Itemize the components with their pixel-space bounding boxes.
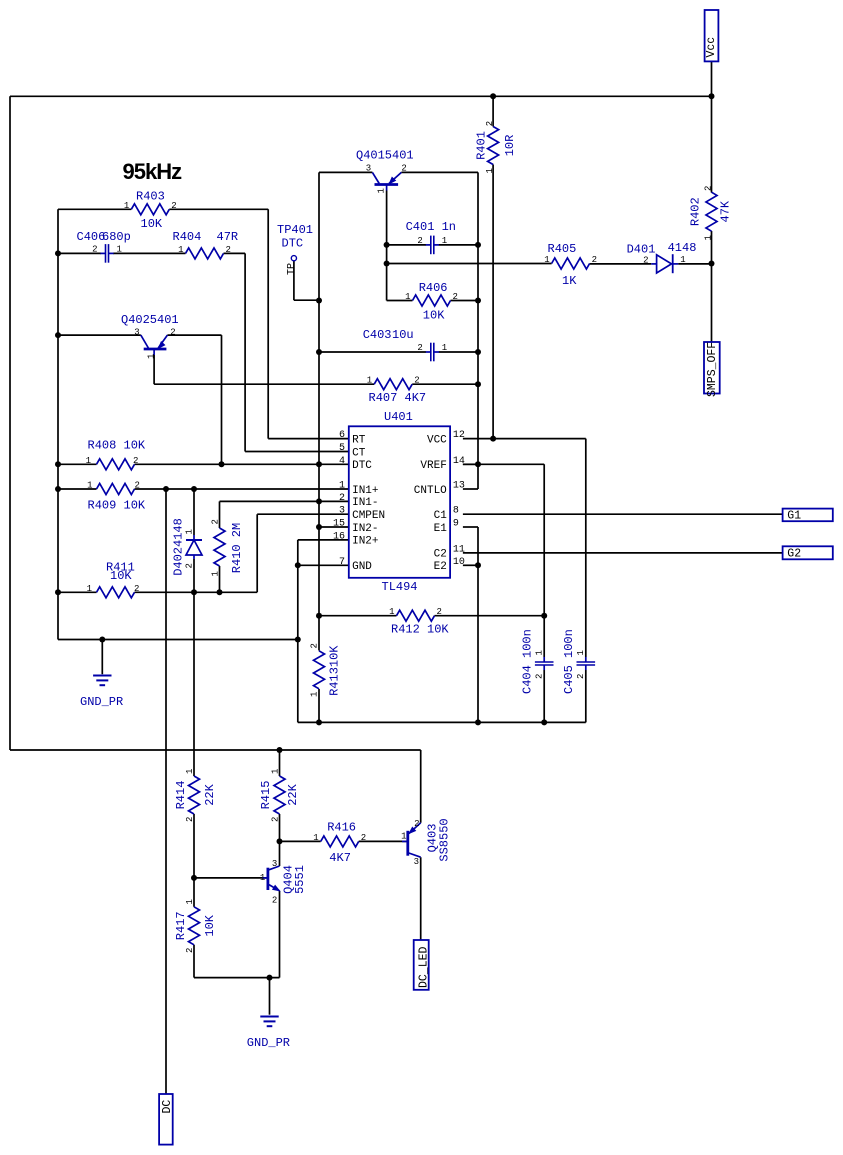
svg-text:1: 1 (86, 456, 91, 466)
svg-text:2: 2 (361, 833, 366, 843)
svg-text:C405 100n: C405 100n (562, 629, 576, 694)
svg-text:1: 1 (339, 481, 345, 492)
svg-text:2: 2 (185, 563, 195, 568)
svg-text:1: 1 (367, 376, 372, 386)
svg-text:2: 2 (170, 328, 175, 338)
svg-text:Vcc: Vcc (705, 37, 718, 58)
svg-text:1: 1 (310, 692, 320, 697)
svg-text:G2: G2 (787, 548, 801, 561)
svg-text:2: 2 (310, 643, 320, 648)
svg-text:TL494: TL494 (382, 580, 418, 594)
svg-text:2: 2 (271, 817, 281, 822)
svg-text:DC: DC (161, 1100, 174, 1114)
svg-text:DC_LED: DC_LED (418, 946, 431, 988)
svg-text:1: 1 (117, 244, 122, 254)
svg-text:1K: 1K (562, 274, 577, 288)
svg-text:10R: 10R (503, 135, 517, 157)
svg-text:1: 1 (211, 571, 221, 576)
svg-text:GND: GND (352, 561, 372, 573)
svg-text:1: 1 (185, 899, 195, 904)
svg-text:1: 1 (576, 650, 586, 655)
svg-text:2: 2 (592, 255, 597, 265)
svg-text:10K: 10K (203, 914, 217, 936)
svg-text:95kHz: 95kHz (123, 159, 183, 184)
svg-text:Q4025401: Q4025401 (121, 313, 179, 327)
svg-text:R404: R404 (173, 230, 202, 244)
svg-text:12: 12 (453, 430, 465, 441)
svg-text:C404 100n: C404 100n (521, 629, 535, 694)
svg-text:3: 3 (366, 164, 371, 174)
svg-text:5551: 5551 (293, 865, 307, 894)
svg-text:U401: U401 (384, 410, 413, 424)
svg-text:R408 10K: R408 10K (88, 438, 146, 452)
svg-text:1: 1 (313, 833, 318, 843)
svg-text:5: 5 (339, 443, 345, 454)
svg-text:3: 3 (339, 506, 345, 517)
svg-text:1: 1 (87, 584, 92, 594)
svg-text:DTC: DTC (352, 460, 372, 472)
svg-text:16: 16 (333, 531, 345, 542)
svg-text:2: 2 (414, 376, 419, 386)
svg-text:C406: C406 (77, 230, 106, 244)
svg-text:D4024148: D4024148 (172, 518, 186, 576)
svg-text:TP401: TP401 (277, 223, 313, 237)
svg-text:10: 10 (453, 557, 465, 568)
svg-text:1: 1 (178, 245, 183, 255)
svg-text:G1: G1 (787, 510, 801, 523)
svg-text:2: 2 (135, 481, 140, 491)
svg-text:1: 1 (271, 769, 281, 774)
svg-text:1: 1 (401, 832, 406, 842)
svg-text:15: 15 (333, 519, 345, 530)
svg-text:2: 2 (133, 456, 138, 466)
svg-text:7: 7 (339, 557, 345, 568)
svg-text:GND_PR: GND_PR (80, 695, 123, 709)
svg-text:4148: 4148 (668, 241, 697, 255)
svg-text:1: 1 (485, 168, 495, 173)
svg-text:680p: 680p (102, 230, 131, 244)
svg-text:14: 14 (453, 456, 465, 467)
svg-text:10K: 10K (141, 217, 163, 231)
svg-text:R401: R401 (475, 131, 489, 160)
svg-text:2: 2 (92, 244, 97, 254)
svg-text:C1: C1 (434, 510, 448, 522)
svg-text:SMPS_OFF: SMPS_OFF (706, 342, 719, 397)
svg-text:R417: R417 (174, 911, 188, 940)
svg-text:R403: R403 (136, 190, 165, 204)
svg-text:R406: R406 (419, 281, 448, 295)
svg-text:RT: RT (352, 434, 366, 446)
svg-text:IN2-: IN2- (352, 523, 378, 535)
svg-text:R405: R405 (548, 242, 577, 256)
svg-text:1: 1 (544, 255, 549, 265)
svg-text:R415: R415 (259, 781, 273, 810)
svg-text:9: 9 (453, 519, 459, 530)
svg-text:2: 2 (226, 245, 231, 255)
svg-text:1: 1 (535, 650, 545, 655)
svg-text:1: 1 (405, 292, 410, 302)
svg-text:2: 2 (171, 201, 176, 211)
svg-text:2: 2 (414, 819, 419, 829)
svg-text:1: 1 (680, 255, 685, 265)
svg-text:22K: 22K (203, 783, 217, 805)
svg-text:10K: 10K (423, 309, 445, 323)
svg-text:R41310K: R41310K (328, 645, 342, 696)
svg-text:CNTLO: CNTLO (414, 485, 447, 497)
svg-text:10u: 10u (392, 328, 414, 342)
svg-text:47K: 47K (718, 200, 732, 222)
svg-text:4: 4 (339, 456, 345, 467)
svg-text:R407 4K7: R407 4K7 (369, 391, 427, 405)
svg-text:E1: E1 (434, 523, 448, 535)
svg-text:1: 1 (704, 235, 714, 240)
svg-text:2: 2 (339, 493, 345, 504)
svg-text:2: 2 (437, 607, 442, 617)
svg-text:C2: C2 (434, 549, 447, 561)
svg-text:1: 1 (124, 201, 129, 211)
svg-text:1: 1 (146, 354, 156, 359)
svg-text:E2: E2 (434, 561, 447, 573)
svg-text:22K: 22K (286, 783, 300, 805)
svg-text:1: 1 (442, 343, 447, 353)
svg-text:IN1-: IN1- (352, 497, 378, 509)
svg-text:GND_PR: GND_PR (247, 1036, 290, 1050)
svg-text:IN2+: IN2+ (352, 536, 378, 548)
svg-text:C401 1n: C401 1n (406, 220, 456, 234)
svg-text:1: 1 (376, 188, 386, 193)
svg-text:6: 6 (339, 430, 345, 441)
svg-text:1: 1 (260, 873, 265, 883)
svg-text:R416: R416 (327, 821, 356, 835)
svg-text:2: 2 (417, 236, 422, 246)
svg-text:CMPEN: CMPEN (352, 510, 385, 522)
svg-text:VREF: VREF (420, 460, 446, 472)
svg-text:3: 3 (134, 328, 139, 338)
svg-text:2: 2 (704, 186, 714, 191)
svg-text:Q4015401: Q4015401 (356, 149, 414, 163)
svg-text:2: 2 (576, 674, 586, 679)
svg-text:2: 2 (643, 255, 648, 265)
svg-text:2: 2 (272, 895, 277, 905)
svg-text:D401: D401 (627, 243, 656, 257)
svg-text:2: 2 (401, 164, 406, 174)
svg-text:DTC: DTC (282, 237, 304, 251)
svg-text:TP: TP (286, 263, 297, 275)
svg-text:R402: R402 (688, 197, 702, 226)
svg-text:3: 3 (272, 859, 277, 869)
svg-text:R410 2M: R410 2M (230, 523, 244, 573)
svg-text:2: 2 (211, 519, 221, 524)
svg-text:11: 11 (453, 544, 465, 555)
svg-text:1: 1 (389, 607, 394, 617)
svg-text:2: 2 (417, 343, 422, 353)
svg-text:1: 1 (185, 529, 195, 534)
svg-text:1: 1 (185, 769, 195, 774)
svg-text:13: 13 (453, 481, 465, 492)
svg-text:10K: 10K (110, 569, 132, 583)
svg-text:3: 3 (414, 857, 419, 867)
svg-text:SS8550: SS8550 (438, 818, 452, 861)
svg-text:8: 8 (453, 506, 459, 517)
svg-text:1: 1 (442, 236, 447, 246)
svg-text:2: 2 (185, 817, 195, 822)
svg-text:2: 2 (485, 121, 495, 126)
svg-text:4K7: 4K7 (329, 851, 351, 865)
svg-text:CT: CT (352, 447, 366, 459)
svg-text:2: 2 (535, 674, 545, 679)
svg-text:47R: 47R (217, 230, 239, 244)
svg-text:1: 1 (87, 481, 92, 491)
svg-text:R409 10K: R409 10K (88, 499, 146, 513)
svg-text:2: 2 (134, 584, 139, 594)
svg-text:R414: R414 (174, 781, 188, 810)
svg-text:IN1+: IN1+ (352, 485, 378, 497)
svg-text:2: 2 (185, 948, 195, 953)
svg-text:R412 10K: R412 10K (391, 623, 449, 637)
svg-text:2: 2 (453, 292, 458, 302)
svg-text:C403: C403 (363, 328, 392, 342)
svg-text:VCC: VCC (427, 434, 447, 446)
